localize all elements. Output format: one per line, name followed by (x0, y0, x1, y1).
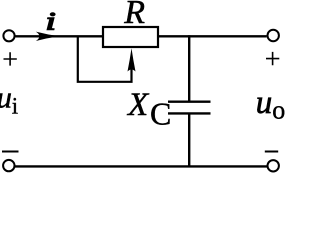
svg-text:C: C (150, 95, 171, 131)
minus bottom-right (265, 151, 278, 153)
terminal top-left (3, 30, 14, 41)
minus bottom-left (2, 151, 19, 153)
wiper arrowhead (128, 48, 136, 71)
svg-text:i: i (46, 7, 56, 35)
wire top right segment (159, 35, 267, 37)
svg-text:o: o (272, 96, 285, 125)
bottom wire (15, 165, 268, 167)
wire top left segment (16, 35, 104, 37)
svg-text:u: u (256, 85, 272, 121)
terminal bottom-left (3, 160, 14, 171)
capacitor bottom plate (168, 112, 211, 114)
terminal bottom-right (268, 160, 279, 171)
capacitor bottom lead (188, 113, 190, 166)
resistor R (103, 27, 158, 47)
current arrow i (36, 32, 60, 41)
plus top-left (4, 52, 17, 65)
svg-text:R: R (123, 0, 145, 31)
svg-text:X: X (126, 87, 150, 123)
svg-text:u: u (0, 80, 12, 115)
wiper tap wire (78, 36, 132, 82)
plus top-right (266, 52, 279, 65)
terminal top-right (268, 30, 279, 41)
svg-text:i: i (12, 94, 18, 119)
capacitor top lead (188, 35, 190, 101)
capacitor top plate (168, 100, 211, 102)
